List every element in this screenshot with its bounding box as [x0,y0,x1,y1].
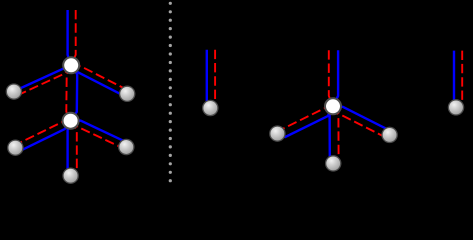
wire cut-N3-up blue [333,50,338,106]
atom H ball fragment2 bottom [326,156,341,171]
wire bond C3-H_l blue [277,106,333,137]
wire bond C1-C2 blue [71,65,78,120]
wire bond C2-H_lr red dashed ghost [71,121,127,147]
atom C2 node [63,113,79,129]
wire bond C3-H_b red dashed ghost [333,106,339,163]
wire bond C3-H_r red dashed ghost [333,106,390,136]
wire cut-N1-up red dashed ghost [71,10,76,65]
atom H ball bottom [63,168,78,183]
atom H ball fragment2 left [270,126,285,141]
wire bond C1-H_ul blue [14,65,71,91]
atom H ball upper-left [6,84,21,99]
atom H ball lower-left [8,140,23,155]
wire cut-N1-up blue [68,10,72,65]
atom H ball upper-right [120,86,135,101]
wire bond C3-H_r blue [333,106,390,135]
wire bond C1-H_ul red dashed ghost [14,65,71,93]
wire bond C2-H_ll blue [15,121,70,150]
atom C3 node (fragment) [325,98,341,114]
wire bond C2-H_b blue [68,121,71,176]
wire bond C2-H_b red dashed ghost [71,121,77,176]
separator dotted line (22 dots) [169,2,172,183]
wire bond C2-H_lr blue [71,121,127,147]
atom H ball fragment2 right [382,127,397,142]
atom H ball fragment3 [448,100,463,115]
wire bond C3-H_l red dashed ghost [277,106,333,133]
atom C1 node [63,57,79,73]
wire cut-F1 blue [207,50,211,108]
wire bond C1-H_ur red dashed ghost [71,65,127,94]
wire cut-F3 red dashed ghost [456,51,462,108]
atom H ball fragment1 [203,100,218,115]
wire bond C2-H_ll red dashed ghost [15,121,70,148]
wire bond C3-H_b blue [330,106,334,163]
wire bond C1-H_ur blue [71,65,127,94]
wire bond C1-C2 red dashed ghost [66,65,71,120]
wire cut-F1 red dashed ghost [210,50,215,108]
atom H ball lower-right [119,139,134,154]
wire cut-N3-up red dashed ghost [329,50,333,106]
wire cut-F3 blue [454,51,456,108]
